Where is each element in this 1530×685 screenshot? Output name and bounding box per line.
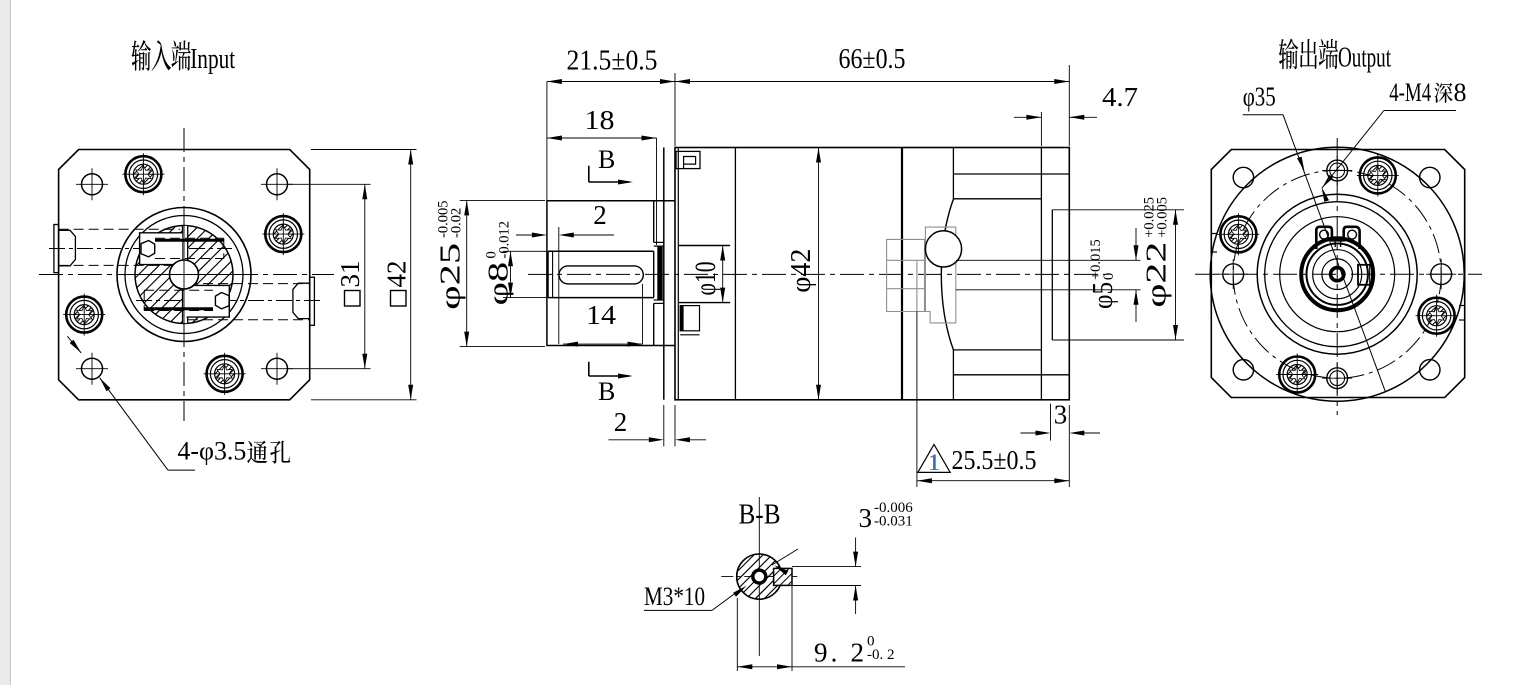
svg-text:1: 1 bbox=[928, 450, 940, 475]
svg-text:31: 31 bbox=[335, 261, 365, 288]
svg-text:B: B bbox=[598, 145, 615, 174]
svg-text:φ35: φ35 bbox=[1243, 81, 1276, 111]
svg-text:-0.031: -0.031 bbox=[874, 514, 913, 530]
svg-text:Input: Input bbox=[190, 44, 235, 75]
svg-text:18: 18 bbox=[585, 105, 615, 135]
svg-text:3: 3 bbox=[859, 503, 873, 533]
svg-text:+0.005: +0.005 bbox=[1155, 197, 1171, 238]
svg-text:φ25: φ25 bbox=[435, 243, 466, 310]
svg-text:-0.012: -0.012 bbox=[497, 221, 513, 258]
svg-text:0: 0 bbox=[1101, 273, 1117, 280]
svg-text:φ42: φ42 bbox=[786, 249, 817, 293]
svg-text:8: 8 bbox=[1454, 78, 1467, 107]
svg-text:42: 42 bbox=[381, 261, 411, 288]
svg-text:φ5: φ5 bbox=[1087, 282, 1119, 309]
svg-text:66±0.5: 66±0.5 bbox=[839, 44, 906, 75]
svg-text:4.7: 4.7 bbox=[1102, 82, 1138, 112]
svg-text:φ8: φ8 bbox=[483, 262, 514, 306]
svg-text:-0.02: -0.02 bbox=[448, 208, 464, 238]
svg-text:9. 2: 9. 2 bbox=[814, 638, 864, 668]
svg-text:2: 2 bbox=[593, 200, 607, 230]
svg-text:4-M4: 4-M4 bbox=[1389, 78, 1431, 107]
svg-text:φ10: φ10 bbox=[688, 261, 721, 295]
svg-text:21.5±0.5: 21.5±0.5 bbox=[567, 46, 658, 77]
svg-text:B: B bbox=[598, 377, 615, 406]
svg-text:M3*10: M3*10 bbox=[644, 582, 705, 611]
svg-text:2: 2 bbox=[614, 407, 628, 437]
svg-text:3: 3 bbox=[1054, 400, 1068, 430]
svg-text:φ22: φ22 bbox=[1140, 242, 1171, 308]
svg-text:-0. 2: -0. 2 bbox=[867, 647, 895, 663]
svg-text:14: 14 bbox=[586, 300, 617, 330]
svg-text:25.5±0.5: 25.5±0.5 bbox=[952, 445, 1037, 475]
svg-text:4-φ3.5: 4-φ3.5 bbox=[177, 437, 246, 466]
svg-text:Output: Output bbox=[1338, 43, 1391, 74]
